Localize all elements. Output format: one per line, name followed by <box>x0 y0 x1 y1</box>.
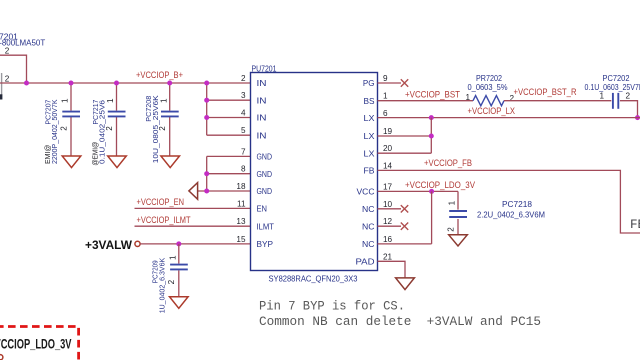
capacitor PC7207 <box>62 112 80 117</box>
PC7217 refdes + @EMI@ (rotated) <box>91 100 101 166</box>
svg-text:14: 14 <box>383 161 393 170</box>
capacitor PC7209 <box>170 265 188 270</box>
IN bus vertical <box>206 83 208 135</box>
wire pin12 stub <box>378 225 402 227</box>
wire pin13 ILMT <box>135 225 251 227</box>
svg-text:FB: FB <box>364 166 375 176</box>
wire pin1 BS to resistor <box>378 100 474 102</box>
svg-text:LX: LX <box>364 113 375 123</box>
svg-text:18: 18 <box>236 182 246 191</box>
svg-text:0.1U_0603_25V7K: 0.1U_0603_25V7K <box>585 83 640 92</box>
svg-text:PAD: PAD <box>356 257 375 267</box>
svg-text:PC7202: PC7202 <box>603 74 631 83</box>
wire pin18 <box>198 190 251 192</box>
svg-text:PR7202: PR7202 <box>476 74 502 83</box>
junction on rail at PC7208 <box>167 81 172 86</box>
svg-text:GND: GND <box>257 152 273 162</box>
svg-text:+VCCIOP_FB: +VCCIOP_FB <box>424 158 472 168</box>
svg-text:FB: FB <box>630 218 640 232</box>
svg-text:LX: LX <box>364 148 375 158</box>
no-connect X pin10 <box>401 205 408 212</box>
wire: upper-left entry stepping down <box>0 55 27 83</box>
svg-text:1: 1 <box>168 255 177 260</box>
svg-text:2: 2 <box>446 227 455 232</box>
capacitor PC7202 <box>613 93 618 109</box>
svg-text:+3VALW: +3VALW <box>85 240 132 252</box>
svg-text:Common NB can delete +3VALW a: Common NB can delete +3VALW and PC15 <box>259 315 541 329</box>
capacitor PC7217 <box>108 112 126 117</box>
capacitor PC7207 branch wire <box>70 83 72 156</box>
svg-text:10: 10 <box>383 200 393 209</box>
ground below PC7208 <box>161 156 180 168</box>
svg-text:Pin 7 BYP is for CS.: Pin 7 BYP is for CS. <box>259 299 405 313</box>
junction LX / pin19-20 bus <box>429 115 434 120</box>
wire pin9 PG stub <box>378 82 402 84</box>
svg-text:+VCCIOP_ILMT: +VCCIOP_ILMT <box>137 215 191 225</box>
svg-text:1: 1 <box>159 98 168 103</box>
no-connect X pin12 <box>401 223 408 230</box>
svg-text:2: 2 <box>167 279 176 284</box>
svg-text:GND: GND <box>257 186 273 196</box>
svg-text:2200P_0402_50V7K: 2200P_0402_50V7K <box>50 100 59 165</box>
svg-text:PU7201: PU7201 <box>252 63 277 73</box>
node junction at step <box>24 81 29 86</box>
svg-text:6: 6 <box>383 109 388 118</box>
svg-text:1U_0402_6.3V6K: 1U_0402_6.3V6K <box>158 258 167 314</box>
svg-text:2: 2 <box>241 74 246 83</box>
wire pin4 <box>207 117 251 119</box>
svg-text:19: 19 <box>383 127 393 136</box>
svg-text:3: 3 <box>241 91 246 100</box>
dashed callout box <box>0 327 79 360</box>
svg-text:21: 21 <box>383 252 393 261</box>
svg-text:PG: PG <box>363 78 375 88</box>
wire: main +VCCIOP_B+ rail <box>0 82 251 84</box>
wire pin17 VCC <box>378 190 459 192</box>
wire NC16 link vertical <box>431 191 433 244</box>
svg-text:2: 2 <box>626 92 631 101</box>
svg-text:SY8288RAC_QFN20_3X3: SY8288RAC_QFN20_3X3 <box>269 273 358 283</box>
resistor PR7202 <box>473 96 504 106</box>
wire pin7 + GND bus <box>207 156 251 191</box>
wire pin19 <box>378 135 432 137</box>
junction on LX at right edge <box>635 115 640 120</box>
svg-text:0.1U_0402_25V6: 0.1U_0402_25V6 <box>98 100 107 164</box>
svg-text:2: 2 <box>5 47 10 56</box>
wire pin5 <box>207 134 251 136</box>
capacitor PC7217 branch wire <box>116 83 118 156</box>
svg-text:NC: NC <box>362 239 375 249</box>
wire pin11 EN <box>135 207 251 209</box>
wire pin8 <box>207 173 251 175</box>
bus for pins 19/20 <box>430 118 432 154</box>
svg-text:NC: NC <box>362 204 375 214</box>
svg-text:IN: IN <box>257 130 267 140</box>
PC7207 refdes + EMI@ (rotated) <box>43 100 53 164</box>
svg-text:2.2U_0402_6.3V6M: 2.2U_0402_6.3V6M <box>477 210 545 220</box>
svg-text:GND: GND <box>257 169 273 179</box>
PC7218 branch wires <box>457 191 459 234</box>
component body edge (cut off, gray) <box>0 73 2 100</box>
ground below PC7217 <box>108 156 127 168</box>
svg-text:5: 5 <box>241 126 246 135</box>
wire pin6 LX rail <box>378 117 640 119</box>
svg-text:ILMT: ILMT <box>257 221 275 231</box>
svg-text:2: 2 <box>59 126 68 131</box>
svg-text:IN: IN <box>257 95 267 105</box>
wire pin16 <box>378 243 432 245</box>
svg-text:1: 1 <box>383 92 388 101</box>
svg-text:VCC: VCC <box>357 187 375 197</box>
svg-text:VCCIOP_LDO_3V: VCCIOP_LDO_3V <box>0 336 72 351</box>
junction on rail at PC7217 <box>114 81 119 86</box>
svg-text:15: 15 <box>236 235 246 244</box>
svg-text:IN: IN <box>257 113 267 123</box>
wire pin15 BYP <box>140 243 250 245</box>
svg-text:10U_0805_25V6K: 10U_0805_25V6K <box>151 95 160 163</box>
svg-text:+VCCIOP_BST_R: +VCCIOP_BST_R <box>514 87 577 97</box>
wire pin3 <box>207 99 251 101</box>
capacitor PC7208 branch wire <box>169 83 171 156</box>
svg-text:1: 1 <box>61 98 70 103</box>
wire pin21 PAD <box>378 261 406 278</box>
svg-text:17: 17 <box>383 182 393 191</box>
svg-text:+VCCIOP_LDO_3V: +VCCIOP_LDO_3V <box>405 180 475 190</box>
svg-text:9: 9 <box>383 74 388 83</box>
svg-text:NC: NC <box>362 221 375 231</box>
svg-text:20: 20 <box>383 144 393 153</box>
junction on rail at PC7207 <box>69 81 74 86</box>
svg-text:PC7218: PC7218 <box>502 199 532 209</box>
no-connect X pin9 <box>401 79 408 86</box>
wire resistor to PC7202 <box>504 100 611 102</box>
wire pin14 FB to right edge <box>378 170 640 233</box>
connector circle (cut off at edge) <box>0 355 3 360</box>
ground (left-pointing) at GND bus <box>189 183 198 200</box>
ground below PC7218 <box>449 235 468 246</box>
svg-text:+VCCIOP_B+: +VCCIOP_B+ <box>136 70 183 80</box>
svg-text:1: 1 <box>466 93 471 102</box>
op-amp U: IC PU7201 box <box>251 73 378 271</box>
capacitor PC7218 <box>449 211 467 217</box>
wire PC7202 to LX net <box>620 101 638 118</box>
svg-text:7: 7 <box>241 147 246 156</box>
svg-text:13: 13 <box>236 217 246 226</box>
svg-text:4: 4 <box>241 109 246 118</box>
ground at PAD <box>396 278 415 290</box>
PC7209 branch wires <box>178 244 180 297</box>
svg-text:+VCCIOP_EN: +VCCIOP_EN <box>137 197 185 207</box>
junction VCC / NC16 link <box>429 189 434 194</box>
svg-text:1: 1 <box>600 91 605 100</box>
svg-text:BYP: BYP <box>257 239 274 249</box>
svg-text:0_0603_5%: 0_0603_5% <box>468 83 508 92</box>
svg-text:12: 12 <box>383 217 393 226</box>
svg-text:LX: LX <box>364 131 375 141</box>
connector circle of +3VALW <box>135 241 140 246</box>
svg-text:8: 8 <box>241 165 246 174</box>
svg-text:EN: EN <box>257 204 268 214</box>
ground below PC7207 <box>62 156 81 168</box>
svg-text:+VCCIOP_LX: +VCCIOP_LX <box>468 106 516 116</box>
wire pin10 stub <box>378 208 402 210</box>
svg-text:2: 2 <box>5 75 10 84</box>
junction at PC7209 branch <box>176 241 181 246</box>
ground below PC7209 <box>170 297 189 309</box>
svg-text:16: 16 <box>383 235 393 244</box>
svg-text:BS: BS <box>364 96 375 106</box>
inductor PL7201 (cut off at left edge) refdes <box>0 32 45 48</box>
svg-text:1: 1 <box>106 98 115 103</box>
svg-text:IN: IN <box>257 78 267 88</box>
svg-text:1: 1 <box>448 200 457 205</box>
junction rail/IN-bus <box>204 81 209 86</box>
svg-text:+VCCIOP_BST: +VCCIOP_BST <box>405 90 460 100</box>
svg-text:11: 11 <box>237 199 246 208</box>
wire pin20 <box>378 152 432 154</box>
capacitor PC7208 <box>161 112 179 117</box>
